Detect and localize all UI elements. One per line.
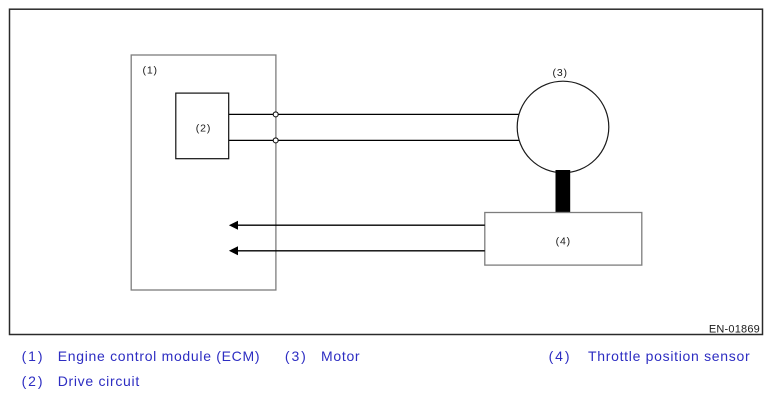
legend item (1) Engine control module (ECM)	[22, 349, 45, 363]
svg-text:(3): (3)	[553, 67, 568, 79]
motor M (3)	[517, 67, 609, 173]
wire: drive circuit to motor, bottom	[229, 139, 520, 141]
svg-text:(1): (1)	[143, 65, 158, 77]
legend item (3) Motor	[285, 349, 308, 363]
ECM box (1)	[131, 55, 276, 290]
drive circuit box (2)	[176, 93, 229, 159]
legend item (4) Throttle position sensor	[549, 349, 572, 363]
throttle position sensor box (4)	[485, 213, 642, 266]
wire: sensor to ECM, bottom, with arrowhead	[229, 246, 485, 255]
connector node on bottom wire	[273, 138, 278, 143]
svg-text:(2): (2)	[196, 122, 211, 134]
svg-text:EN-01869: EN-01869	[709, 323, 760, 335]
connector node on top wire	[273, 112, 278, 117]
svg-text:(4): (4)	[556, 236, 571, 248]
motor shaft	[556, 170, 571, 213]
wire: sensor to ECM, top, with arrowhead	[229, 221, 485, 230]
wire: drive circuit to motor, top	[229, 113, 520, 115]
legend item (2) Drive circuit	[22, 374, 45, 388]
